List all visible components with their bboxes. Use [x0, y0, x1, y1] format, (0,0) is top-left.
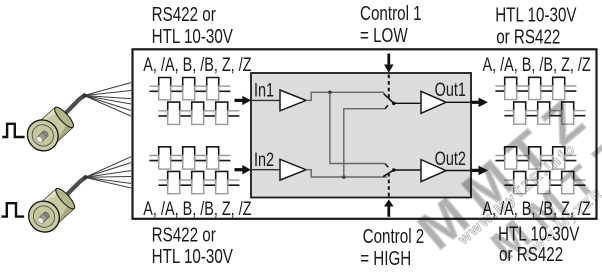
svg-text:RS422 or: RS422 or [152, 3, 216, 26]
label Control 2 = HIGH [360, 225, 424, 270]
svg-text:= LOW: = LOW [360, 24, 408, 47]
connector body E2 [38, 186, 77, 225]
label Control 1 = LOW [360, 2, 422, 47]
pin E2 [37, 211, 51, 225]
wire In2 to buffer [251, 169, 280, 171]
svg-text:or RS422: or RS422 [496, 25, 560, 48]
switch S1 arm (selects In1) [384, 94, 394, 104]
buffer amp A2 (In2) [280, 159, 306, 180]
wire crossover In2 to switch S1 lower contact [344, 109, 385, 177]
arrow into In1 [235, 96, 252, 105]
svg-text:Out2: Out2 [435, 148, 466, 169]
pulse symbol P1 (top encoder) [2, 124, 24, 137]
switch S1 lower contact tick [385, 105, 388, 109]
wire S2 pivot to Out2 buffer [394, 169, 421, 171]
cable E2 [59, 177, 86, 202]
encoder connector E2 (bottom) [22, 157, 131, 239]
buffer amp A1 (In1) [280, 90, 306, 111]
wire crossover In1 to switch S2 upper contact [330, 92, 385, 163]
node J2 (In2 branch) [342, 175, 346, 179]
switch S1 pivot [392, 102, 396, 106]
switch S2 upper contact tick [385, 164, 388, 168]
wire In1 to buffer [251, 99, 280, 101]
control 1 dashed line to switch S1 [388, 75, 390, 100]
svg-text:A, /A, B, /B, Z, /Z: A, /A, B, /B, Z, /Z [143, 198, 251, 219]
svg-text:= HIGH: = HIGH [360, 247, 411, 270]
svg-text:Out1: Out1 [435, 79, 466, 100]
label HTL 10-30V or RS422 (top right) [495, 3, 576, 48]
connector face E1 [21, 114, 64, 158]
pin E1 [35, 130, 49, 144]
svg-text:A, /A, B, /B, Z, /Z: A, /A, B, /B, Z, /Z [483, 54, 591, 75]
wire Out2 buffer to box edge [446, 170, 471, 172]
buffer amp A4 (Out2) [421, 160, 446, 182]
control 1 arrow (down into box) [384, 54, 394, 73]
connector body E1 [37, 105, 76, 144]
switch S2 pivot [392, 168, 396, 172]
watermark [407, 77, 602, 279]
switch S2 arm (selects In2) [383, 170, 394, 177]
pulse symbol P2 (bottom encoder) [2, 203, 25, 216]
control 2 arrow (up into box) [384, 199, 394, 216]
waveform W3 right-top A/B quadrature [495, 77, 585, 124]
cable E1 [58, 96, 85, 122]
svg-text:HTL 10-30V: HTL 10-30V [152, 25, 233, 48]
buffer amp A3 (Out1) [421, 91, 446, 113]
label RS422 or HTL 10-30V (bottom left) [152, 223, 233, 267]
waveform W1 left-top A/B quadrature [149, 78, 239, 125]
label HTL 10-30V or RS422 (bottom right) [498, 222, 579, 265]
connector face E2 [22, 195, 65, 239]
waveform W2 left-bottom A/B quadrature [149, 147, 239, 194]
arrow into In2 [235, 165, 252, 174]
fan wires E1 [84, 83, 131, 117]
label RS422 or HTL 10-30V (top left) [152, 3, 233, 47]
svg-text:In2: In2 [254, 149, 274, 170]
svg-text:Control 1: Control 1 [360, 2, 422, 25]
outer white box [133, 49, 597, 219]
wire Out1 buffer to box edge [446, 101, 471, 103]
wire S1 pivot to Out1 buffer [394, 102, 421, 104]
control 2 dashed line to switch S2 [388, 173, 390, 197]
converter box U1 [251, 73, 471, 198]
svg-text:HTL 10-30V: HTL 10-30V [495, 3, 576, 26]
wire In2 buffer output to switch S2 lower contact [306, 170, 387, 177]
svg-text:In1: In1 [254, 80, 274, 101]
encoder connector E1 (top) [21, 83, 131, 158]
svg-text:HTL 10-30V: HTL 10-30V [152, 245, 233, 268]
node J1 (In1 branch) [328, 91, 332, 95]
waveform W4 right-bottom A/B quadrature [495, 147, 585, 194]
svg-text:RS422 or: RS422 or [152, 223, 216, 246]
wire In1 buffer output to switch S1 upper contact [306, 92, 384, 100]
svg-text:A, /A, B, /B, Z, /Z: A, /A, B, /B, Z, /Z [143, 54, 251, 75]
fan wires E2 [85, 157, 131, 188]
arrow out of Out1 [471, 98, 488, 108]
arrow out of Out2 [471, 166, 488, 176]
svg-text:Control 2: Control 2 [363, 225, 425, 248]
